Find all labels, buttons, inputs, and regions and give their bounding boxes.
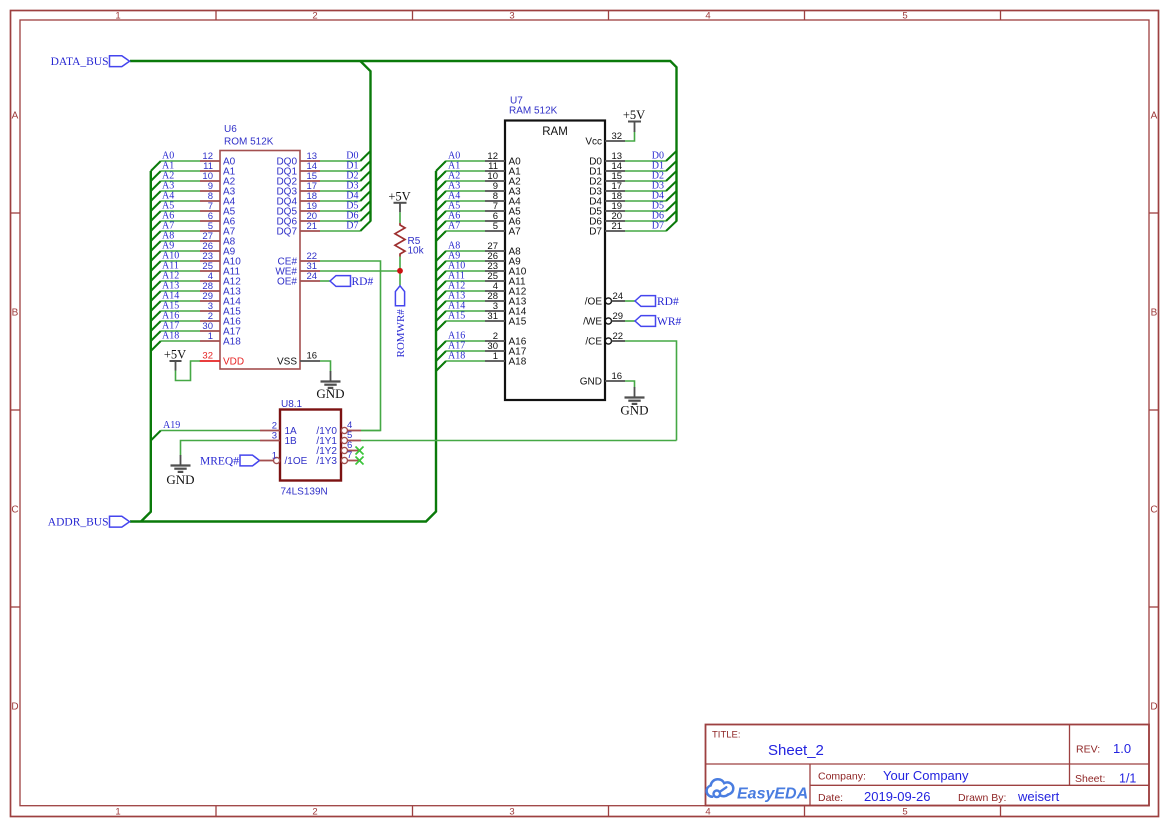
svg-text:ADDR_BUS: ADDR_BUS (48, 517, 109, 529)
svg-text:EasyEDA: EasyEDA (737, 786, 808, 803)
chip U7 body (505, 121, 605, 401)
frame column ticks top (216, 11, 1001, 21)
svg-text:B: B (12, 308, 19, 319)
svg-text:10k: 10k (408, 246, 425, 257)
svg-text:MREQ#: MREQ# (200, 456, 239, 468)
pin 3 U7 A14 (485, 301, 527, 318)
pin 1 U7 A18 (485, 351, 527, 368)
port MREQ# (200, 455, 259, 467)
wire net A13 to U7 (446, 300, 485, 302)
pin 10 U6 A2 (200, 171, 236, 188)
pin 3 U8.1 1B (260, 431, 297, 448)
wire addr bus left branch (141, 171, 151, 522)
port DATA_BUS (51, 56, 130, 68)
pin 28 U7 A13 (485, 291, 527, 308)
chip U7 designator labels (509, 95, 558, 116)
svg-text:1: 1 (115, 11, 120, 22)
wire net A18 to U6 (161, 340, 200, 342)
pin 10 U7 A2 (485, 171, 521, 188)
pin 2 U8.1 1A (260, 421, 297, 438)
svg-text:WR#: WR# (657, 316, 682, 328)
pin 6 U6 A6 (200, 211, 236, 228)
frame column numbers bottom (115, 807, 907, 818)
pin 14 U6 DQ1 (276, 161, 320, 178)
svg-text:C: C (1150, 505, 1157, 516)
pin 6 U8.1 /1Y2 (316, 440, 361, 457)
wire net D0 from U6 (320, 160, 360, 162)
no-connect flag /1Y2 (356, 447, 364, 455)
svg-text:A: A (12, 111, 19, 122)
svg-text:GND: GND (580, 377, 602, 388)
svg-text:+5V: +5V (164, 348, 186, 362)
pin 11 U7 A1 (485, 161, 521, 178)
wire Vcc to +5V (625, 132, 635, 142)
svg-text:2019-09-26: 2019-09-26 (864, 789, 931, 804)
svg-text:22: 22 (613, 331, 624, 342)
pin 7 U8.1 /1Y3 (316, 450, 361, 467)
title block company/date divider (810, 784, 1149, 786)
pin 25 U6 A11 (200, 261, 240, 278)
svg-text:32: 32 (612, 131, 623, 142)
pin 17 U6 DQ3 (276, 181, 320, 198)
no-connect flag /1Y3 (356, 457, 364, 465)
wire GND pin U7 (625, 381, 635, 388)
port WR# at U7 (635, 316, 682, 328)
wire net A2 to U6 (161, 180, 200, 182)
svg-text:RAM 512K: RAM 512K (509, 106, 558, 117)
pin 26 U6 A9 (200, 241, 236, 258)
wire net A6 to U6 (161, 220, 200, 222)
svg-text:21: 21 (612, 221, 623, 232)
wire net A10 to U7 (446, 270, 485, 272)
svg-text:+5V: +5V (388, 189, 410, 203)
wire net A9 to U6 (161, 250, 200, 252)
pin 14 U7 D1 (589, 161, 625, 178)
svg-text:1: 1 (115, 807, 120, 818)
svg-text:7: 7 (347, 450, 352, 461)
title block row divider (706, 763, 1150, 765)
pin 1 U6 A18 (200, 331, 241, 348)
pin 22 U7 /CE (585, 331, 625, 348)
wire net A10 to U6 (161, 260, 200, 262)
wire net A5 to U7 (446, 210, 485, 212)
svg-text:16: 16 (612, 371, 623, 382)
svg-text:/CE: /CE (585, 337, 602, 348)
svg-text:Vcc: Vcc (585, 137, 602, 148)
pin 6 U7 A6 (485, 211, 521, 228)
frame row ticks right (1149, 213, 1159, 607)
wire /OE to RD# port (625, 300, 635, 302)
wire net A11 to U6 (161, 270, 200, 272)
bus entry A19 (151, 431, 161, 441)
svg-text:32: 32 (202, 351, 213, 362)
svg-text:3: 3 (272, 431, 277, 442)
pin 15 U6 DQ2 (276, 171, 320, 188)
wire /1Y1 to U7 /CE (361, 440, 677, 442)
pin 3 U6 A15 (200, 301, 241, 318)
wire net A16 to U6 (161, 320, 200, 322)
pin 19 U6 DQ5 (276, 201, 320, 218)
svg-text:1B: 1B (285, 436, 298, 447)
power +5V at U6 (164, 348, 186, 371)
wire net D1 from U6 (320, 170, 360, 172)
wire net A6 to U7 (446, 220, 485, 222)
svg-text:/WE: /WE (583, 317, 602, 328)
pin 18 U7 D4 (589, 191, 625, 208)
wire net A7 to U7 (446, 230, 485, 232)
wire net D5 from U6 (320, 210, 360, 212)
pin 27 U6 A8 (200, 231, 236, 248)
wire net A4 to U6 (161, 200, 200, 202)
pin 21 U7 D7 (589, 221, 625, 238)
svg-text:24: 24 (613, 291, 624, 302)
wire net A8 to U6 (161, 240, 200, 242)
svg-text:1: 1 (208, 331, 213, 342)
wire net D7 from U6 (320, 230, 360, 232)
pin 9 U7 A3 (485, 181, 521, 198)
svg-text:ROM 512K: ROM 512K (224, 137, 274, 148)
pin 8 U7 A4 (485, 191, 521, 208)
svg-text:2: 2 (312, 11, 317, 22)
svg-text:U6: U6 (224, 124, 237, 135)
wire net A9 to U7 (446, 260, 485, 262)
svg-text:3: 3 (509, 11, 514, 22)
wire net A3 to U7 (446, 190, 485, 192)
svg-text:Sheet_2: Sheet_2 (768, 742, 824, 759)
wire net D4 from U6 (320, 200, 360, 202)
frame column ticks bottom (216, 806, 1001, 817)
svg-text:A15: A15 (448, 311, 465, 322)
svg-text:D: D (1150, 702, 1157, 713)
pin 20 U7 D6 (589, 211, 625, 228)
pin 2 U7 A16 (485, 331, 527, 348)
svg-text:DATA_BUS: DATA_BUS (51, 56, 109, 68)
svg-text:Sheet:: Sheet: (1075, 773, 1105, 785)
bus entries U6 data pins (360, 151, 370, 231)
pin 11 U6 A1 (200, 161, 236, 178)
svg-text:Company:: Company: (818, 771, 866, 783)
pin 30 U6 A17 (200, 321, 241, 338)
wire net A18 to U7 (446, 360, 485, 362)
svg-text:Your Company: Your Company (883, 768, 969, 783)
pin 5 U6 A7 (200, 221, 236, 238)
ground GND at U7 (620, 387, 648, 418)
pin 26 U7 A9 (485, 251, 521, 268)
pin 1 U8.1 /1OE (260, 451, 308, 468)
svg-text:C: C (11, 505, 18, 516)
pin 2 U6 A16 (200, 311, 241, 328)
wire net D3 from U7 (625, 190, 666, 192)
pin 20 U6 DQ6 (276, 211, 320, 228)
pin 4 U7 A12 (485, 281, 527, 298)
pin 28 U6 A13 (200, 281, 241, 298)
wire net A5 to U6 (161, 210, 200, 212)
wire net D7 from U7 (625, 230, 666, 232)
wire ADDR_BUS bottom (130, 171, 436, 522)
svg-text:TITLE:: TITLE: (712, 730, 741, 741)
power +5V at U7 (623, 108, 645, 132)
wire net D6 from U6 (320, 220, 360, 222)
wire net A12 to U7 (446, 290, 485, 292)
pin 17 U7 D3 (589, 181, 625, 198)
svg-text:29: 29 (613, 311, 624, 322)
wire net D5 from U7 (625, 210, 666, 212)
svg-text:D: D (11, 702, 18, 713)
pin 12 U7 A0 (485, 151, 521, 168)
chip U8.1 body (280, 410, 341, 481)
svg-text:1: 1 (493, 351, 498, 362)
svg-text:D7: D7 (346, 221, 358, 232)
resistor R5 10k (395, 223, 425, 257)
svg-text:3: 3 (509, 807, 514, 818)
wire /WE to WR# port (625, 320, 635, 322)
wire DATA_BUS horizontal top (130, 61, 677, 222)
svg-text:1.0: 1.0 (1113, 741, 1131, 756)
svg-text:RAM: RAM (542, 126, 568, 138)
pin 31 U6 WE# (275, 261, 320, 278)
wire +5V to R5 (399, 212, 401, 223)
pin 5 U7 A7 (485, 221, 521, 238)
svg-text:A15: A15 (509, 317, 527, 328)
wire net A7 to U6 (161, 230, 200, 232)
wire net A8 to U7 (446, 250, 485, 252)
title block outer (706, 725, 1150, 806)
pin 24 U6 OE# (277, 271, 320, 288)
svg-text:A18: A18 (162, 331, 179, 342)
svg-text:5: 5 (493, 221, 498, 232)
svg-text:A: A (1151, 111, 1158, 122)
svg-text:/1OE: /1OE (285, 456, 308, 467)
pin 27 U7 A8 (485, 241, 521, 258)
svg-text:16: 16 (307, 351, 318, 362)
frame row letters left (11, 111, 18, 713)
pin 16 U7 GND (580, 371, 625, 388)
svg-text:1: 1 (272, 451, 277, 462)
wire /CE net to U8 /1Y1 (625, 341, 677, 441)
svg-text:5: 5 (902, 11, 907, 22)
pin 19 U7 D5 (589, 201, 625, 218)
wire net A15 to U7 (446, 320, 485, 322)
pin 21 U6 DQ7 (276, 221, 320, 238)
wire net D6 from U7 (625, 220, 666, 222)
svg-text:/1Y3: /1Y3 (316, 456, 337, 467)
svg-text:weisert: weisert (1017, 789, 1060, 804)
wire net A1 to U7 (446, 170, 485, 172)
frame column numbers top (115, 11, 907, 22)
wire net A12 to U6 (161, 280, 200, 282)
pin 29 U7 /WE (583, 311, 625, 328)
op chip U6 designator labels (224, 124, 274, 148)
ground GND at U6 VSS (316, 371, 344, 401)
svg-text:GND: GND (316, 386, 344, 401)
pin 12 U6 A0 (200, 151, 236, 168)
wire OE# to RD# port (320, 280, 330, 282)
pin 32 U7 Vcc (585, 131, 625, 148)
wire net A1 to U6 (161, 170, 200, 172)
svg-text:21: 21 (307, 221, 318, 232)
wire VDD to +5V (176, 361, 201, 381)
svg-text:D7: D7 (652, 221, 664, 232)
pin 15 U7 D2 (589, 171, 625, 188)
wire net D2 from U7 (625, 180, 666, 182)
svg-text:B: B (1151, 308, 1158, 319)
pin 9 U6 A3 (200, 181, 236, 198)
wire net D1 from U7 (625, 170, 666, 172)
svg-text:4: 4 (705, 11, 710, 22)
svg-text:VDD: VDD (223, 357, 244, 368)
svg-text:31: 31 (487, 311, 498, 322)
pin 18 U6 DQ4 (276, 191, 320, 208)
frame row letters right (1150, 111, 1157, 713)
svg-text:/OE: /OE (585, 297, 603, 308)
pin 31 U7 A15 (485, 311, 527, 328)
svg-text:A18: A18 (448, 351, 465, 362)
wire net D3 from U6 (320, 190, 360, 192)
svg-text:GND: GND (166, 472, 194, 487)
svg-text:DQ7: DQ7 (276, 227, 297, 238)
bus entries U6 address pins (151, 161, 161, 351)
svg-text:REV:: REV: (1076, 744, 1100, 756)
pin 32 U6 VDD (200, 351, 245, 368)
port RD# at U7 (635, 296, 679, 308)
svg-text:A19: A19 (163, 420, 180, 431)
wire net A13 to U6 (161, 290, 200, 292)
pin 24 U7 /OE (585, 291, 625, 308)
bus entries U7 data pins (666, 151, 677, 231)
svg-text:2: 2 (312, 807, 317, 818)
wire net A3 to U6 (161, 190, 200, 192)
pin 7 U6 A5 (200, 201, 236, 218)
pin 13 U7 D0 (589, 151, 625, 168)
svg-text:1/1: 1/1 (1119, 772, 1136, 786)
frame row ticks left (11, 213, 21, 607)
wire net A0 to U7 (446, 160, 485, 162)
pin 30 U7 A17 (485, 341, 527, 358)
wire data bus branch to U6 (360, 61, 370, 222)
wire net D4 from U7 (625, 200, 666, 202)
ground GND at U8.1 1B (166, 455, 194, 487)
pin 13 U6 DQ0 (276, 151, 320, 168)
wire net A16 to U7 (446, 340, 485, 342)
wire net A0 to U6 (161, 160, 200, 162)
port RD# at U6 (330, 276, 373, 288)
pin 29 U6 A14 (200, 291, 241, 308)
title block logo cell divider (809, 764, 811, 806)
svg-text:Date:: Date: (818, 792, 843, 804)
svg-text:Drawn By:: Drawn By: (958, 792, 1006, 804)
svg-text:A7: A7 (448, 221, 460, 232)
svg-text:5: 5 (902, 807, 907, 818)
wire net A17 to U6 (161, 330, 200, 332)
svg-text:RD#: RD# (657, 296, 679, 308)
svg-text:RD#: RD# (352, 276, 374, 288)
wire net D2 from U6 (320, 180, 360, 182)
pin 23 U7 A10 (485, 261, 527, 278)
svg-text:A7: A7 (509, 227, 522, 238)
wire net A17 to U7 (446, 350, 485, 352)
svg-text:D7: D7 (589, 227, 602, 238)
junction node at WE#/ROMWR# (397, 268, 403, 274)
EasyEDA logo (707, 779, 809, 802)
pin 7 U7 A5 (485, 201, 521, 218)
pin 5 U8.1 /1Y1 (316, 430, 361, 447)
wire net A2 to U7 (446, 180, 485, 182)
wire net A14 to U7 (446, 310, 485, 312)
bus entries U7 address pins (436, 161, 446, 371)
pin 4 U6 A12 (200, 271, 241, 288)
svg-text:GND: GND (620, 403, 648, 418)
wire net A15 to U6 (161, 310, 200, 312)
wire net D0 from U7 (625, 160, 666, 162)
pin 23 U6 A10 (200, 251, 241, 268)
pin 22 U6 CE# (278, 251, 320, 268)
power +5V at R5 (388, 189, 410, 212)
svg-text:ROMWR#: ROMWR# (395, 309, 407, 358)
svg-text:VSS: VSS (277, 357, 297, 368)
title block rev cell divider (1069, 725, 1071, 786)
wire VSS to GND (320, 361, 331, 372)
pin 8 U6 A4 (200, 191, 236, 208)
chip U6 body (220, 151, 300, 370)
pin 16 U6 VSS (277, 351, 320, 368)
wire net A11 to U7 (446, 280, 485, 282)
svg-text:A18: A18 (509, 357, 527, 368)
svg-text:24: 24 (307, 271, 318, 282)
svg-text:4: 4 (705, 807, 710, 818)
svg-text:+5V: +5V (623, 108, 645, 122)
pin 4 U8.1 /1Y0 (316, 420, 361, 437)
svg-text:OE#: OE# (277, 277, 297, 288)
svg-text:A18: A18 (223, 337, 241, 348)
wire net A4 to U7 (446, 200, 485, 202)
wire /1Y0 to CE# vertical (361, 430, 381, 432)
wire R5 to junction (399, 257, 401, 286)
wire 1B to GND (181, 441, 261, 456)
wire CE# net to U8 /1Y0 (320, 261, 381, 431)
port ADDR_BUS (48, 516, 130, 528)
port ROMWR# (395, 286, 407, 358)
wire WE# net to junction (320, 270, 400, 272)
wire net A19 (161, 430, 260, 432)
svg-text:74LS139N: 74LS139N (281, 487, 328, 498)
wire net A14 to U6 (161, 300, 200, 302)
pin 25 U7 A11 (485, 271, 526, 288)
